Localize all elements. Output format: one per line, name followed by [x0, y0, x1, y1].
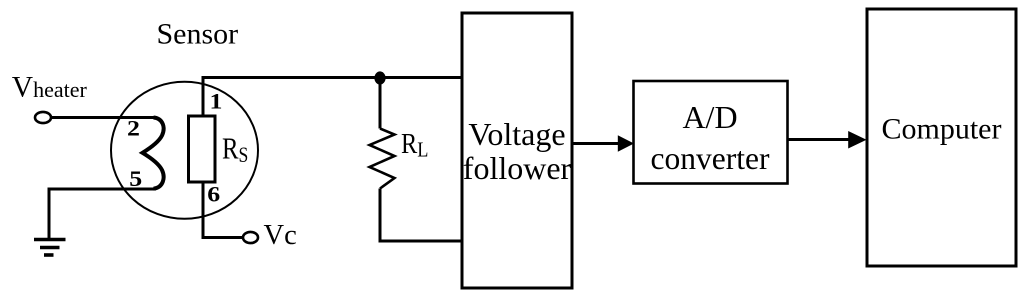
wire junction down to RL: [379, 78, 382, 129]
svg-text:Vheater: Vheater: [12, 72, 88, 104]
box voltage follower U1: [462, 13, 572, 288]
junction node: [374, 71, 385, 84]
svg-text:A/D: A/D: [682, 99, 737, 135]
heater coil: [143, 118, 164, 189]
wire pin 1 (top): [202, 78, 205, 118]
svg-text:6: 6: [207, 182, 220, 207]
box computer U3: [867, 9, 1016, 266]
svg-text:Voltage: Voltage: [468, 116, 565, 152]
wire to Vc terminal: [202, 236, 244, 239]
svg-text:Vc: Vc: [264, 220, 297, 251]
svg-text:follower: follower: [463, 150, 572, 186]
terminal Vc: [243, 232, 258, 243]
wire pin 5 to ground: [49, 189, 156, 238]
resistor RL zigzag: [370, 129, 395, 189]
svg-text:Computer: Computer: [882, 113, 1002, 146]
resistor RS: [189, 116, 216, 182]
ground: [34, 240, 66, 256]
wire RL to voltage follower bottom: [380, 189, 462, 242]
svg-text:1: 1: [210, 89, 223, 114]
wire pin 6 (bottom): [202, 182, 205, 239]
terminal Vheater: [35, 112, 51, 123]
sensor envelope circle: [111, 82, 258, 219]
wire Vheater to heater coil pin 2: [51, 116, 157, 119]
box A/D converter U2: [634, 81, 788, 184]
wire arrow A/D to computer: [789, 138, 851, 141]
svg-text:Sensor: Sensor: [157, 18, 239, 51]
svg-text:converter: converter: [651, 141, 770, 176]
wire sensor to voltage follower (top bus): [202, 76, 463, 79]
wire arrow voltage follower to A/D: [574, 142, 621, 145]
svg-text:2: 2: [127, 116, 140, 141]
